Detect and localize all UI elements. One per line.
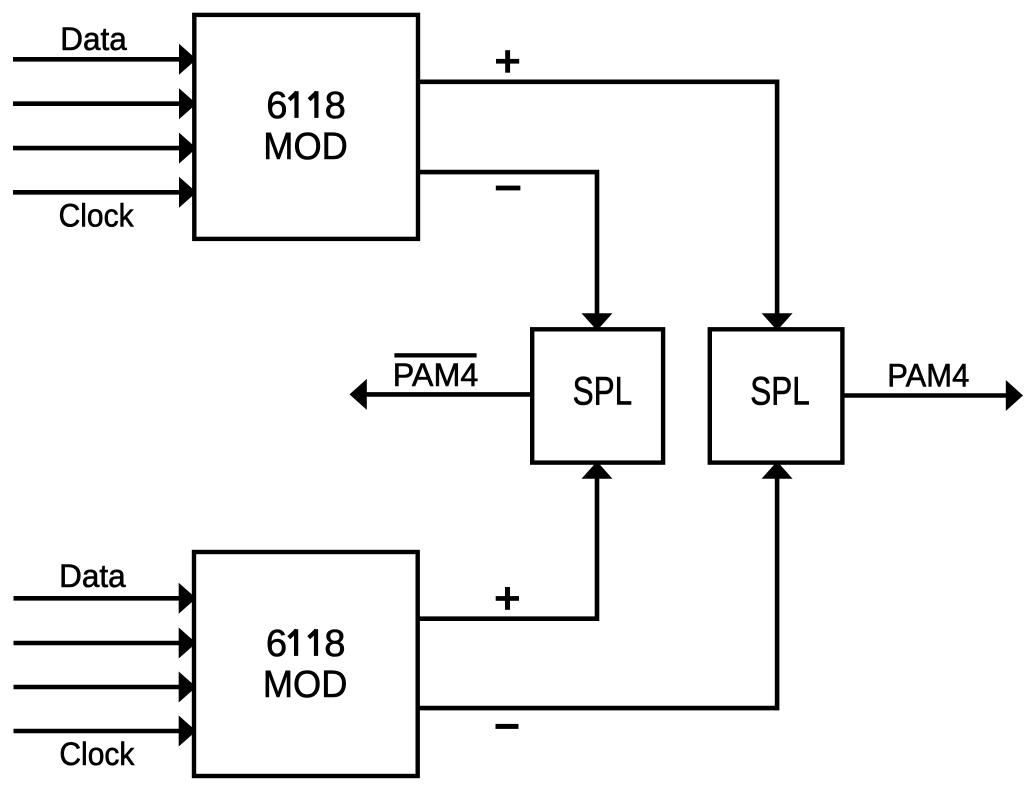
svg-text:Clock: Clock xyxy=(59,198,135,234)
svg-text:SPL: SPL xyxy=(573,370,633,414)
svg-text:MOD: MOD xyxy=(263,663,348,706)
svg-text:Data: Data xyxy=(59,558,126,594)
svg-text:6: 6 xyxy=(266,84,287,127)
svg-text:SPL: SPL xyxy=(750,370,810,414)
svg-text:Data: Data xyxy=(60,21,127,57)
svg-text:MOD: MOD xyxy=(263,125,348,168)
svg-text:PAM4: PAM4 xyxy=(393,357,479,393)
svg-text:8: 8 xyxy=(325,84,346,127)
svg-text:PAM4: PAM4 xyxy=(887,357,969,393)
svg-text:Clock: Clock xyxy=(59,736,135,772)
